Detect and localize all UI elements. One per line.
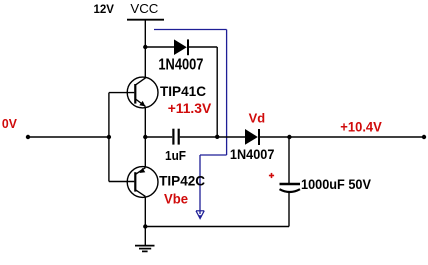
label 0V	[2, 116, 17, 131]
transistor Q1 TIP41C circle	[127, 77, 158, 108]
wire from D1 cathode down to output node	[216, 47, 218, 137]
wire VCC to collector of Q1	[144, 20, 146, 78]
transistor Q2 emitter diagonal with arrow	[136, 168, 146, 175]
power VCC bar	[127, 19, 164, 21]
label Vd	[249, 111, 266, 126]
wire blue net top horizontal	[154, 29, 227, 31]
node junction output cap	[287, 135, 291, 139]
wire Q1 emitter down to node	[144, 107, 146, 137]
diode D2 1N4007	[245, 129, 259, 145]
svg-text:1N4007: 1N4007	[230, 146, 275, 162]
svg-text:+11.3V: +11.3V	[168, 100, 212, 116]
wire diode D1 cathode	[188, 46, 217, 48]
wire to diode D2 anode	[217, 136, 245, 138]
capacitor C2 polarity plus	[269, 173, 274, 178]
node output terminal dot	[422, 135, 426, 139]
transistor Q1 base bar	[134, 84, 136, 104]
transistor Q1 emitter diagonal with arrow	[136, 99, 146, 106]
transistor Q2 base bar	[134, 172, 136, 191]
svg-text:12V: 12V	[94, 2, 115, 16]
node junction emitter rail	[143, 135, 147, 139]
svg-text:VCC: VCC	[130, 1, 158, 16]
wire Q2 collector down to ground rail	[144, 197, 146, 227]
label TIP42C	[159, 173, 205, 189]
svg-text:1000uF 50V: 1000uF 50V	[301, 176, 372, 192]
wire capacitor C2 to ground rail	[288, 193, 290, 227]
wire diode D2 cathode to output	[259, 136, 289, 138]
capacitor C1 1uF plates	[173, 129, 178, 145]
node junction at VCC/diode anode	[143, 45, 147, 49]
node junction at diode feed	[215, 135, 219, 139]
wire 0V input to base rail	[28, 136, 109, 138]
transistor Q1 collector diagonal	[136, 78, 146, 85]
svg-text:0V: 0V	[2, 116, 17, 131]
svg-text:1N4007: 1N4007	[158, 56, 203, 73]
label +11.3V	[168, 100, 212, 116]
node junction base rail	[107, 135, 111, 139]
ground symbol	[135, 227, 155, 252]
wire emitter node to capacitor C1	[145, 136, 172, 138]
label 1000uF 50V	[301, 176, 372, 192]
blue arrow terminal	[196, 211, 204, 219]
svg-text:TIP41C: TIP41C	[160, 83, 206, 99]
label 1N4007 (output diode)	[230, 146, 275, 162]
wire base rail vertical	[108, 93, 110, 182]
label 1uF	[165, 148, 186, 163]
wire capacitor C1 to node	[180, 136, 217, 138]
label TIP41C	[160, 83, 206, 99]
transistor Q2 TIP42C circle	[127, 167, 158, 198]
node input dot	[26, 135, 30, 139]
wire blue net down vertical	[199, 155, 201, 214]
wire output node down to capacitor C2	[288, 137, 290, 183]
label Vbe	[164, 191, 188, 207]
svg-text:Vbe: Vbe	[164, 191, 188, 207]
diode D1 1N4007	[174, 39, 188, 55]
transistor Q2 collector diagonal	[136, 190, 146, 197]
label 12V	[94, 2, 115, 16]
wire Q2 base	[109, 181, 134, 183]
wire Q1 base	[109, 92, 134, 94]
wire blue net right vertical	[226, 30, 228, 156]
capacitor C2 1000uF plates	[280, 184, 301, 192]
label 1N4007 (top diode)	[158, 56, 203, 73]
wire output to right terminal	[289, 136, 424, 138]
wire ground rail horizontal	[145, 226, 289, 228]
label +10.4V	[340, 118, 382, 134]
svg-text:TIP42C: TIP42C	[159, 173, 205, 189]
node junction ground rail	[143, 224, 147, 228]
wire diode D1 anode	[145, 46, 174, 48]
wire node to Q2 emitter	[144, 137, 146, 167]
svg-text:Vd: Vd	[249, 111, 266, 126]
svg-text:+10.4V: +10.4V	[340, 118, 382, 134]
svg-text:1uF: 1uF	[165, 148, 186, 163]
power VCC label	[130, 1, 158, 16]
wire blue net jog horizontal	[200, 154, 227, 156]
